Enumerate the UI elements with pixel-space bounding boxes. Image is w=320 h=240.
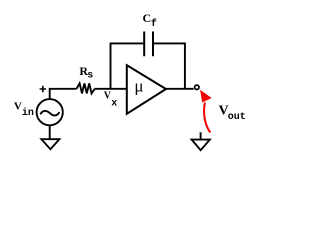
svg-text:s: s	[87, 71, 93, 82]
svg-text:x: x	[111, 98, 117, 109]
svg-text:V: V	[14, 100, 22, 112]
svg-text:C: C	[143, 11, 152, 25]
svg-text:f: f	[151, 18, 157, 30]
svg-text:out: out	[228, 112, 246, 123]
svg-text:in: in	[22, 107, 34, 119]
svg-text:μ: μ	[134, 76, 143, 95]
